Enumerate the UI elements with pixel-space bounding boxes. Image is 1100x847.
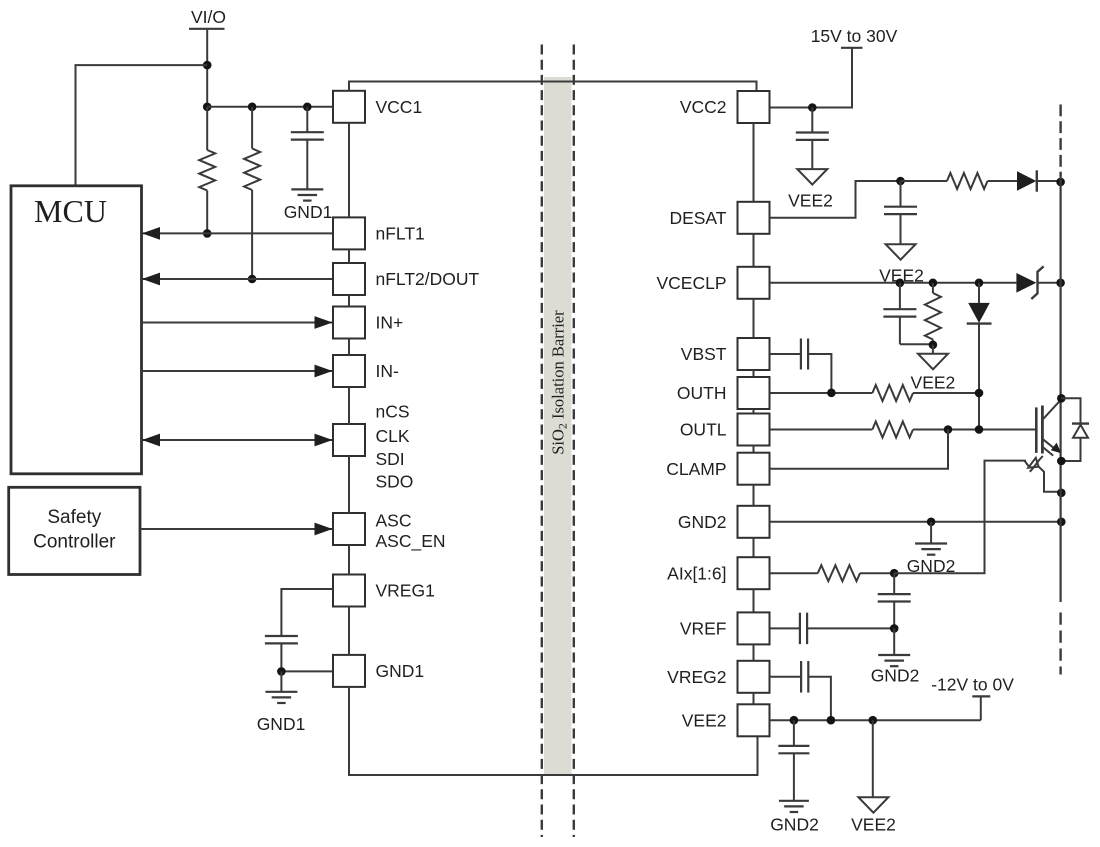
IC pin VREG2 [667, 661, 769, 693]
wire bottom rail GND1 to VEE2 [349, 687, 758, 775]
IC pin VREF [680, 612, 770, 644]
svg-text:CLAMP: CLAMP [666, 459, 726, 479]
svg-text:AIx[1:6]: AIx[1:6] [667, 563, 726, 583]
wire nFLT1 to MCU [142, 232, 334, 234]
wire pin rail nFLT1-nFLT2 [348, 249, 350, 263]
junction C3 top [808, 103, 817, 112]
capacitor C8 [800, 613, 807, 645]
capacitor C5 [883, 283, 933, 344]
supply 15V to 30V [811, 26, 898, 108]
junction C2-GND1 [277, 667, 286, 676]
junction C10 top [790, 716, 799, 725]
wire VBST to C6 [770, 353, 801, 355]
wire SPI bus [142, 439, 334, 441]
junction R4 bottom [929, 341, 938, 350]
junction D2 cathode rail [1056, 279, 1065, 288]
wire to MCU top [76, 65, 208, 185]
svg-text:15V to 30V: 15V to 30V [811, 26, 898, 46]
collector-emitter rail [1059, 176, 1061, 602]
wire pin rail IN- to SPI [348, 387, 350, 424]
wire kelvin sense [894, 461, 1026, 574]
wire VREF to C8 [770, 627, 800, 629]
capacitor C10 [778, 720, 809, 800]
collector rail dashed top [1059, 105, 1061, 177]
power VEE2 (VCC2 bypass) [788, 169, 833, 210]
capacitor C6 (bootstrap) [801, 339, 808, 370]
junction R1 bottom [203, 229, 212, 238]
wire CLAMP up to OUTL [770, 430, 949, 469]
svg-text:VEE2: VEE2 [911, 372, 956, 392]
svg-text:CLK: CLK [376, 426, 410, 446]
ground GND1 (VCC1 bypass) [284, 189, 333, 222]
junction collector node [1057, 394, 1066, 403]
wire VI/O vertical [206, 30, 208, 107]
IC pin GND2 [678, 506, 770, 538]
resistor R1 [199, 107, 215, 234]
IC pin nFLT1 [333, 217, 425, 249]
junction C7-C8 [890, 624, 899, 633]
svg-text:-12V to 0V: -12V to 0V [931, 675, 1014, 695]
wire GND2 to symbol [930, 522, 932, 544]
svg-text:GND2: GND2 [770, 815, 819, 835]
capacitor C7 [878, 573, 911, 628]
IC pin OUTH [677, 377, 770, 409]
IC pin ASC/ASC_EN [333, 511, 446, 553]
emitter rail dashed bottom [1059, 613, 1061, 675]
ground GND2 (emitter) [907, 544, 956, 577]
junction GND2 ground [927, 518, 936, 527]
wire to VEE2 [932, 345, 934, 354]
wire OUTH row [770, 392, 873, 394]
resistor R3 [901, 173, 1018, 189]
wire pin rail SPI to ASC [348, 456, 350, 513]
wire pin rail VCECLP-VBST [753, 299, 755, 338]
power VEE2 (VCECLP filter) [911, 354, 956, 393]
wire VEE2 triangle lead [872, 720, 874, 797]
wire VREG1 to C2 [281, 589, 333, 636]
junction C9-VEE2 [827, 716, 836, 725]
wire pin rail AIx-VREF [753, 589, 755, 612]
isolation barrier label [549, 310, 570, 455]
wire pin rail IN+ to IN- [348, 339, 350, 356]
svg-text:VBST: VBST [681, 344, 727, 364]
wire pin rail CLAMP-GND2 [753, 485, 755, 506]
wire pin rail VCC2-DESAT [753, 123, 755, 202]
junction R5-D3 [975, 389, 984, 398]
svg-text:MCU: MCU [34, 193, 107, 229]
wire pin rail OUTH-OUTL [753, 409, 755, 414]
wire pin rail nFLT2-IN+ [348, 295, 350, 307]
arrow into SPI pin [315, 434, 333, 447]
svg-text:Safety: Safety [47, 507, 101, 528]
svg-text:DESAT: DESAT [669, 208, 726, 228]
wire GND1 pin to ground [281, 670, 333, 672]
IC pin nFLT2/DOUT [333, 263, 480, 295]
transistor Q1 (IGBT) [1036, 399, 1061, 455]
junction C1 top [303, 103, 312, 112]
svg-text:IN-: IN- [376, 361, 400, 381]
junction emitter node [1057, 457, 1066, 466]
svg-text:Controller: Controller [33, 531, 116, 552]
wire GND2 row [770, 521, 1062, 523]
IC pin AIx[1:6] [667, 557, 769, 589]
junction D3 top [975, 279, 984, 288]
junction D3-OUTL [975, 425, 984, 434]
IC pin VBST [681, 338, 770, 370]
IC pin VCC2 [680, 91, 770, 123]
wire pin rail VREF-VREG2 [753, 644, 755, 660]
svg-text:GND1: GND1 [376, 661, 425, 681]
wire C9 to VEE2 row [808, 677, 831, 720]
IC pin VCC1 [333, 91, 422, 123]
resistor R4 [925, 283, 941, 345]
svg-text:VREF: VREF [680, 619, 727, 639]
IC pin CLAMP [666, 453, 769, 485]
arrow into IN+ [315, 316, 333, 329]
wire pin rail VBST-OUTH [753, 370, 755, 377]
wire IN- from MCU [142, 370, 334, 372]
wire pin rail GND2-AIx [753, 538, 755, 557]
svg-text:nFLT2/DOUT: nFLT2/DOUT [376, 269, 480, 289]
wire C6 to OUTH node [808, 354, 831, 393]
IC pin IN- [333, 355, 399, 387]
svg-text:SDI: SDI [376, 449, 405, 469]
junction CLAMP-OUTL [944, 425, 953, 434]
junction GND2 rail [1057, 518, 1066, 527]
svg-text:nFLT1: nFLT1 [376, 224, 425, 244]
wire down to GND1 symbol [280, 671, 282, 691]
MCU block [11, 186, 142, 474]
IC pin DESAT [669, 202, 769, 234]
wire pin rail DESAT-VCECLP [753, 234, 755, 267]
power VEE2 (DESAT filter) [879, 244, 924, 285]
IC pin GND1 [333, 655, 424, 687]
capacitor C1 [291, 107, 324, 189]
capacitor C3 [796, 108, 829, 170]
wire ASC from Safety Controller [140, 528, 333, 530]
wire VEE2 row [770, 719, 981, 721]
ground GND2 (VEE2 bypass) [770, 801, 819, 835]
junction D1 cathode rail [1056, 178, 1065, 187]
wire pin rail VREG1 to GND1 [348, 607, 350, 655]
isolation barrier dashed line right [573, 45, 575, 838]
wire VCC1 top to VCC2 top [349, 82, 757, 92]
svg-text:ASC_EN: ASC_EN [376, 531, 446, 552]
arrow into MCU (nFLT1) [142, 227, 160, 240]
svg-text:VCECLP: VCECLP [656, 273, 726, 293]
junction kelvin rail [1057, 489, 1066, 498]
power VEE2 (negative rail) [851, 797, 896, 834]
wire down to GND2 symbol [893, 628, 895, 654]
diode D4 (freewheel) [1061, 398, 1089, 461]
arrow into MCU (SPI) [142, 434, 160, 447]
capacitor C9 [801, 661, 808, 693]
IC pin nCS/CLK/SDI/SDO [333, 401, 413, 491]
supply -12V to 0V [931, 675, 1014, 721]
wire IN+ from MCU [142, 322, 334, 324]
arrow into MCU (nFLT2) [142, 273, 160, 286]
svg-text:ASC: ASC [376, 511, 412, 531]
svg-text:GND2: GND2 [678, 512, 727, 532]
junction VCC1 node [203, 103, 212, 112]
wire pin rail OUTL-CLAMP [753, 446, 755, 453]
svg-text:VEE2: VEE2 [788, 191, 833, 211]
IC pin VREG1 [333, 575, 435, 607]
isolation barrier dashed line left [541, 45, 543, 838]
junction R2 bottom [248, 275, 257, 284]
arrow into IN- [315, 365, 333, 378]
svg-text:GND1: GND1 [257, 714, 306, 734]
wire pin rail VCC1-nFLT1 [348, 123, 350, 218]
IC pin OUTL [680, 414, 770, 446]
node VI/O label [189, 7, 226, 29]
Safety Controller block [9, 487, 140, 574]
junction R4 top [929, 279, 938, 288]
svg-text:VREG1: VREG1 [376, 581, 435, 601]
svg-text:VCC2: VCC2 [680, 97, 727, 117]
diode D1 (DESAT) [1017, 170, 1061, 191]
wire VREG2 to C9 [770, 676, 802, 678]
isolation barrier band [544, 77, 572, 775]
resistor R5 (OUTH gate) [872, 385, 979, 401]
resistor R2 [244, 107, 260, 279]
zener D5 (kelvin clamp) [1025, 456, 1061, 492]
svg-text:nCS: nCS [376, 401, 410, 421]
svg-text:VEE2: VEE2 [682, 711, 727, 731]
resistor R6 (OUTL gate) [872, 422, 1035, 438]
svg-text:VEE2: VEE2 [851, 815, 896, 835]
svg-text:IN+: IN+ [376, 313, 404, 333]
wire AIx to R7 [770, 572, 818, 574]
capacitor C4 [884, 181, 917, 244]
svg-text:VCC1: VCC1 [376, 97, 423, 117]
IC pin VCECLP [656, 267, 769, 299]
wire VCC2 to supply [770, 107, 813, 109]
svg-text:SiO2 Isolation Barrier: SiO2 Isolation Barrier [549, 310, 570, 455]
capacitor C2 [265, 636, 298, 672]
wire pin rail ASC to VREG1 [348, 545, 350, 575]
wire C8 to node [807, 627, 894, 629]
svg-text:GND1: GND1 [284, 202, 333, 222]
IC pin VEE2 [682, 704, 770, 736]
resistor R7 (AIx) [818, 565, 894, 581]
svg-text:SDO: SDO [376, 472, 414, 492]
arrow into ASC [315, 523, 333, 536]
ground GND2 (VREF) [871, 655, 920, 686]
svg-text:VREG2: VREG2 [667, 667, 726, 687]
svg-text:VI/O: VI/O [191, 7, 226, 27]
junction C4 top [896, 177, 905, 186]
svg-text:OUTH: OUTH [677, 383, 727, 403]
junction C7 top [890, 569, 899, 578]
wire VCC1 node to pin [207, 106, 333, 108]
wire pin rail VREG2-VEE2 [753, 693, 755, 705]
svg-text:GND2: GND2 [871, 666, 920, 686]
ground GND1 (VREG1) [257, 692, 306, 734]
diode D3 (blocking, to OUTH) [967, 283, 992, 430]
junction C6-OUTH [827, 389, 836, 398]
wire OUTL row [770, 429, 873, 431]
junction R2 top [248, 103, 257, 112]
junction C5 top [896, 279, 905, 288]
wire DESAT to R3 [770, 181, 901, 218]
junction VEE2 symbol [869, 716, 878, 725]
wire VCECLP row [770, 282, 1017, 284]
junction VI/O-MCU [203, 61, 212, 70]
IC pin IN+ [333, 307, 403, 339]
wire nFLT2 to MCU [142, 278, 334, 280]
svg-text:OUTL: OUTL [680, 420, 727, 440]
zener D2 (VCECLP) [1016, 266, 1060, 299]
